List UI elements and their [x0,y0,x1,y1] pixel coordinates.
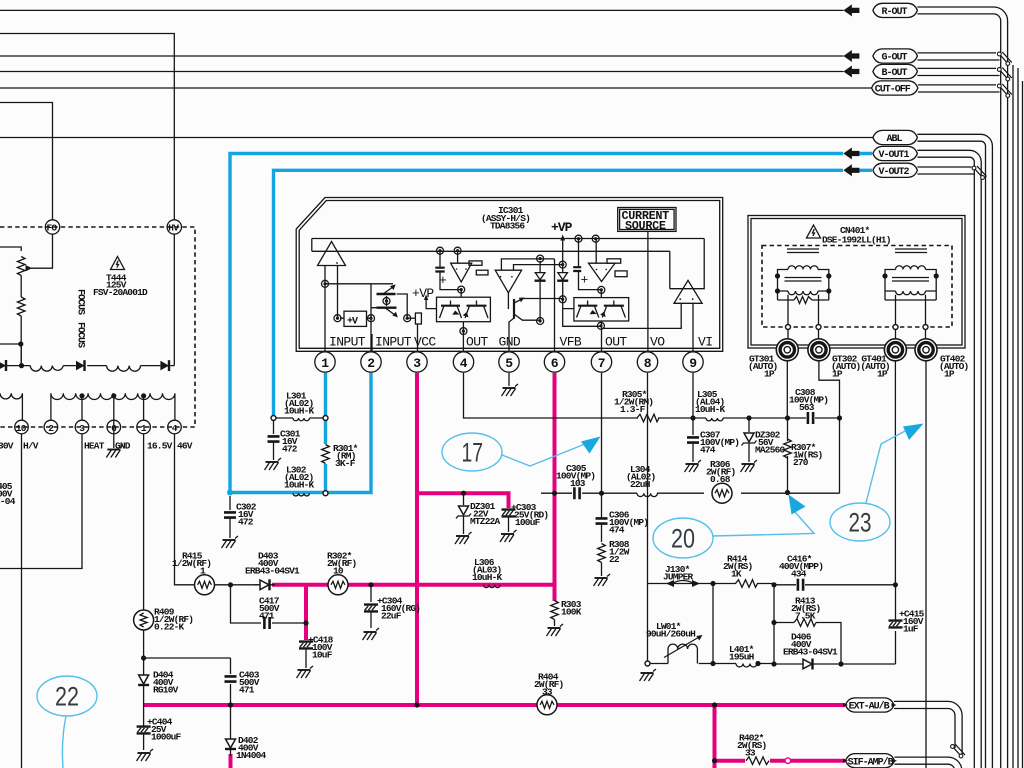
svg-text:VI: VI [698,335,712,350]
svg-text:1P: 1P [877,369,888,380]
node IC pin 4 [453,352,473,372]
svg-text:8: 8 [644,356,652,371]
wire VFB pin6 magenta rail [553,373,557,601]
label GT302 GT401 [831,354,890,380]
label CN401 [822,225,891,246]
wire SIF-AMP/B ribbon [895,757,962,768]
wire pin7 down [601,373,603,518]
wire VCC pin3 magenta rail [415,373,419,705]
wire pin8 internal [647,231,649,351]
svg-text:472: 472 [238,517,254,528]
node pdot diode2 top [559,261,566,268]
node junction rail C403 [228,702,233,707]
wire FO top line [0,103,53,221]
capacitor C404 [137,705,182,750]
callout 22 [37,676,97,768]
svg-text:1P: 1P [832,369,843,380]
node pin 3 [75,420,89,434]
node FO terminal [45,220,59,234]
ground C303 gnd [500,530,517,542]
svg-text:16.5V: 16.5V [147,441,173,452]
wire winding taps [82,397,144,448]
wire leads to jacks [788,330,926,340]
node junction C417-C418 [303,620,308,625]
node pdot vcc right [404,315,411,322]
node V-OUT2 [843,163,917,178]
ground C301 gnd [265,458,282,470]
diode focus right [160,360,169,371]
svg-text:434: 434 [791,569,807,580]
wire pin1 cyan stub [324,373,327,491]
svg-text:10uH-K: 10uH-K [472,572,503,583]
svg-text:1K: 1K [731,569,742,580]
node EXT-AU/B [843,698,897,713]
resistor R414 [723,554,758,588]
node junction C304 [368,582,373,587]
wire pin1 internal [324,266,326,352]
svg-text:FO: FO [47,223,58,234]
svg-text:B-OUT: B-OUT [882,68,908,79]
label GT301 [748,354,778,380]
svg-text:TDA8356: TDA8356 [490,221,525,232]
svg-text:+VP: +VP [412,286,434,301]
wire pin3 internal [417,324,419,351]
svg-text:23: 23 [849,508,872,538]
node junction primary [19,363,24,368]
bundle jog tick CUT-OFF [997,84,1011,97]
wire GT401 down [894,361,896,585]
node HV terminal [167,220,181,234]
wire magenta SIF branch [715,759,846,763]
svg-text:2: 2 [367,356,375,371]
ground pin8 gnd [640,669,657,681]
capacitor C417 [259,596,306,630]
label D405 partial [0,481,16,507]
node pdot pin4 [460,328,467,335]
node junction L401 right [755,661,760,666]
svg-text:471: 471 [239,685,255,696]
zener DZ301 [456,493,501,534]
transistor box A [437,297,491,322]
svg-text:3: 3 [413,356,421,371]
svg-text:7: 7 [598,356,605,371]
svg-text:10uH-K: 10uH-K [284,480,315,491]
svg-text:474: 474 [609,525,625,536]
svg-text:MA2560: MA2560 [755,445,786,456]
warning triangle CN401 [807,225,821,238]
op-amp input triangle [318,242,346,266]
wire boxB to pin7 [601,321,603,351]
wire magenta branch down [713,705,717,768]
diode focus mid [76,360,85,371]
connector GT401 jack [884,339,906,361]
wire feedback pin7 to VI [602,303,682,328]
node IC pin 5 [499,352,519,372]
inductor L302 [284,465,315,496]
transistor gnd internal [514,298,563,321]
connector GT302 jack [808,339,830,361]
connector GT402 jack [915,339,937,361]
node pdot diode1 bottom [537,318,544,325]
svg-text:17: 17 [462,438,484,468]
wire pin5 internal [509,318,514,351]
ground heater gnd [106,446,123,458]
node IC pin 7 [591,352,611,372]
ground C302 gnd [222,536,239,548]
wire GT301 down [786,361,788,418]
capacitor C418 [299,635,334,669]
node pdot pin1 [322,280,329,287]
node junction C308 right [837,415,842,420]
node pdot diode1 top [537,255,544,262]
inductor L401 [713,644,774,667]
wire magenta D402 tail [229,754,233,768]
svg-text:0.68: 0.68 [710,474,731,485]
connector GT301 jack [776,339,798,361]
svg-text:270: 270 [793,457,809,468]
svg-text:ABL: ABL [887,134,903,145]
wire GT402 down [925,361,927,768]
node junction R307 bottom [785,490,790,495]
label T444 [93,273,148,299]
wire C403 vertical [230,658,232,756]
wire C416 line [774,584,895,586]
wire V-OUT2 cyan net [274,170,873,415]
svg-text:10uH-K: 10uH-K [284,406,315,417]
svg-text:90uH/260uH: 90uH/260uH [646,629,696,640]
resistor R308 [598,539,630,576]
node pin 1 [137,420,151,434]
svg-text:+: + [581,273,589,288]
svg-text:46V: 46V [177,441,193,452]
svg-text:+: + [439,273,447,288]
wire pin8 down [647,373,649,661]
svg-text:HV: HV [168,223,179,234]
node IC pin 6 [544,352,564,372]
node CUT-OFF [872,81,918,96]
label GT402 [939,354,969,380]
capacitor C302 [224,496,257,538]
node junction D404 top [141,655,146,660]
node IC pin 9 [683,352,703,372]
resistor R306 [706,459,736,503]
wire compA to box [460,290,462,298]
svg-text:ERB43-04SV1: ERB43-04SV1 [783,647,838,658]
svg-text:103: 103 [570,478,586,489]
capacitor C303 [502,502,549,532]
node pin 6 [107,420,121,434]
wire vfb line [541,492,840,494]
wire V-OUT1 ribbon [917,150,981,768]
wire pin9 internal [692,303,694,351]
node pdot compA out [458,286,465,293]
svg-text:1.3-F: 1.3-F [620,404,646,415]
svg-text:FOCUS: FOCUS [75,322,86,348]
svg-text:10uF: 10uF [312,650,333,661]
wire CUT-OFF line [0,87,872,89]
warning triangle T444 [111,257,125,270]
wire junction down to C417 [231,585,262,623]
svg-text:MTZ22A: MTZ22A [470,516,501,527]
svg-text:EXT-AU/B: EXT-AU/B [849,701,890,713]
node junction rail branch [712,702,717,707]
diode internal 2 [557,252,600,326]
node open circle leads [786,325,929,330]
wire magenta branch to C303 [417,493,509,508]
svg-text:SIF-AMP/B: SIF-AMP/B [848,756,894,768]
svg-text:HEAT: HEAT [84,441,105,452]
diode focus left [0,360,6,371]
svg-text:R-OUT: R-OUT [882,7,908,18]
svg-text:DSE-1992LL(H1): DSE-1992LL(H1) [822,235,891,246]
callout 23 [830,424,924,542]
resistor internal vcc [407,313,421,324]
resistor R415 [172,551,215,595]
svg-text:1P: 1P [764,369,775,380]
wire B-OUT jog verticals [1022,81,1024,768]
node junction R415 [228,582,233,587]
node pdot diode2 mid [559,296,566,303]
node junction pin9 [690,415,695,420]
wire R-OUT line [0,9,843,11]
transistor pair input [371,284,407,318]
wire V-OUT1 cyan net [227,154,872,496]
zener DZ302 [742,418,786,462]
resistor R307 [784,439,823,468]
node open circle L302 [323,491,328,496]
svg-text:22: 22 [55,682,79,712]
svg-text:30V: 30V [0,441,14,452]
wire B-OUT ribbon [917,68,999,75]
node R-OUT [843,3,917,18]
node pdot railA1 [437,247,444,254]
box CURRENT SOURCE [618,208,676,233]
node pin 10 [15,420,29,434]
node G-OUT [843,49,917,64]
node pdot compC out [598,286,605,293]
node pin 4 [168,420,182,434]
wire left pot feed [0,247,21,251]
wire HV top line [0,34,174,221]
node junction SIF branch [712,758,717,763]
svg-text:V-OUT2: V-OUT2 [879,167,910,178]
wire L301 line [274,417,326,419]
svg-text:H/V: H/V [23,441,39,452]
capacitor internal A [435,251,461,290]
wire EXT-AU/B ribbon [894,701,962,755]
node junction pin7-vfb [599,491,604,496]
svg-text:JUMPER: JUMPER [663,572,694,583]
svg-text:3-04: 3-04 [0,496,16,507]
inductor winding1a [30,366,63,372]
node pdot railB2 [592,235,599,242]
wire R-OUT ribbon [917,7,1007,768]
svg-text:5: 5 [505,356,513,371]
wire G-OUT line [0,55,843,57]
ground C304 gnd [363,628,380,640]
wire pin3 down-left [0,434,82,569]
svg-text:0.22-K: 0.22-K [154,622,185,633]
svg-text:474: 474 [700,445,716,456]
label +VP right [551,220,573,252]
node pdot railA2 [454,247,461,254]
ground DZ302 gnd [741,460,758,472]
resistor R301 [321,443,358,469]
svg-text:100K: 100K [561,607,582,618]
wire G-OUT jog verticals [1013,65,1018,768]
node pin 2 [44,420,58,434]
svg-text:33: 33 [542,687,553,698]
svg-text:9: 9 [689,356,697,371]
svg-text:195uH: 195uH [729,652,755,663]
capacitor internal B [573,239,601,290]
svg-text:472: 472 [282,444,298,455]
comparator A [451,251,488,282]
resistor R303 [551,599,582,626]
comparator C [589,239,628,282]
wire boxA to pin4 [462,322,464,351]
node junction C416 right [893,582,898,587]
inductor L304 [626,464,657,497]
node junction DZ301 [461,491,466,496]
svg-text:GND: GND [499,335,521,350]
svg-text:22uF: 22uF [381,611,402,622]
svg-text:RG10V: RG10V [153,685,179,696]
T444 dashed outline [0,227,195,427]
node pdot +V left [334,315,341,322]
wire magenta stub to C418 [304,585,308,640]
wire pin2 internal [370,284,372,351]
node junction vfb-magenta [552,491,557,496]
capacitor C415 [889,585,925,635]
resistor R413 [791,596,821,627]
wire pin1 cross [325,283,393,285]
svg-text:20: 20 [671,524,695,554]
wire D406 line [774,631,896,664]
op-amp IC301 outline [296,198,723,352]
wire C416 net left rail [773,585,775,664]
svg-text:V-OUT1: V-OUT1 [879,150,910,161]
inductor secondary main [51,393,175,420]
wire B-OUT line [0,71,843,73]
ground R303 gnd [547,624,564,636]
node junction D406 left [771,661,776,666]
svg-text:CUT-OFF: CUT-OFF [875,85,911,96]
svg-text:1/2W(RF): 1/2W(RF) [172,558,211,569]
label pin names [329,334,712,351]
diode D406 [783,632,838,670]
svg-text:1: 1 [321,356,329,371]
transformer DGC block2 [882,249,938,324]
svg-text:INPUT: INPUT [375,335,412,350]
op-amp VI triangle [674,280,702,303]
node junction rail VCC [414,702,419,707]
inductor LW01 [646,621,703,664]
node B-OUT [843,64,917,79]
node junction LW01 bottom [710,661,715,666]
svg-text:VCC: VCC [414,335,436,350]
wire ABL ribbon [917,134,992,768]
wire pin6 internal [554,259,556,351]
label +VP left [412,286,437,309]
connector CN401 dashed box [762,246,952,328]
bundle jog tick B-OUT [997,68,1011,81]
inductor L305 [695,389,726,421]
comparator B left [495,259,563,309]
callout 17 [442,433,601,471]
wire R413 line [774,623,841,665]
svg-text:10: 10 [333,566,344,577]
node open circle L301 right [323,416,328,421]
capacitor C304 [364,585,420,628]
node ABL [873,130,918,145]
wire LW01 bottom line [650,584,713,664]
transformer DGC block1 [775,249,832,324]
ground C404 gnd [137,749,154,761]
node open circle pin8 [645,661,650,666]
wire compC to box [600,290,602,298]
callout 20 [653,495,814,559]
svg-text:+V: +V [347,317,358,328]
svg-text:6: 6 [551,356,559,371]
svg-text:INPUT: INPUT [329,335,366,350]
ground R308 gnd [594,574,611,586]
inductor L301 [284,391,315,421]
wire G-OUT ribbon [917,53,999,60]
bundle jog tick G-OUT [997,52,1011,65]
svg-text:33: 33 [745,748,756,759]
diode D402 [225,735,267,761]
node open circle R402 [785,758,791,764]
resistor R305 [614,389,659,422]
node junction D406 right [838,661,843,666]
connector CN401 outline [748,216,965,349]
node IC pin 8 [637,352,657,372]
capacitor C306 [596,510,649,543]
diode internal 1 [535,261,546,321]
wire ABL line [0,137,873,139]
ground C418 gnd [297,666,314,678]
svg-text:4: 4 [460,356,468,371]
capacitor C403 [225,670,260,696]
box +V regulator [340,311,371,327]
svg-text:OUT: OUT [466,335,488,350]
wire HV winding line [0,234,174,366]
node tap dots [79,393,146,398]
potentiometer focus [17,234,52,297]
svg-text:ERB43-04SV1: ERB43-04SV1 [245,566,300,577]
capacitor C307 [687,418,739,462]
svg-text:VO: VO [650,335,665,350]
node pdot railB1 [575,235,582,242]
wire left tap [0,343,21,345]
wire R415 to D403 [214,584,258,586]
svg-text:G-OUT: G-OUT [882,53,908,64]
inductor winding1b [107,366,141,372]
svg-text:100uF: 100uF [515,517,541,528]
svg-text:SOURCE: SOURCE [625,219,666,233]
resistor R409 [134,607,194,633]
wire V-OUT2 ribbon [917,167,974,174]
svg-text:471: 471 [259,611,275,622]
capacitor C308 [789,387,828,424]
resistor R402 [737,733,770,767]
svg-text:7.5K: 7.5K [795,611,816,622]
bundle jog tick V-OUT2 [972,166,986,179]
inductor secondary left [0,393,22,420]
resistor R302 [327,551,357,595]
node junction R413 left [771,620,776,625]
